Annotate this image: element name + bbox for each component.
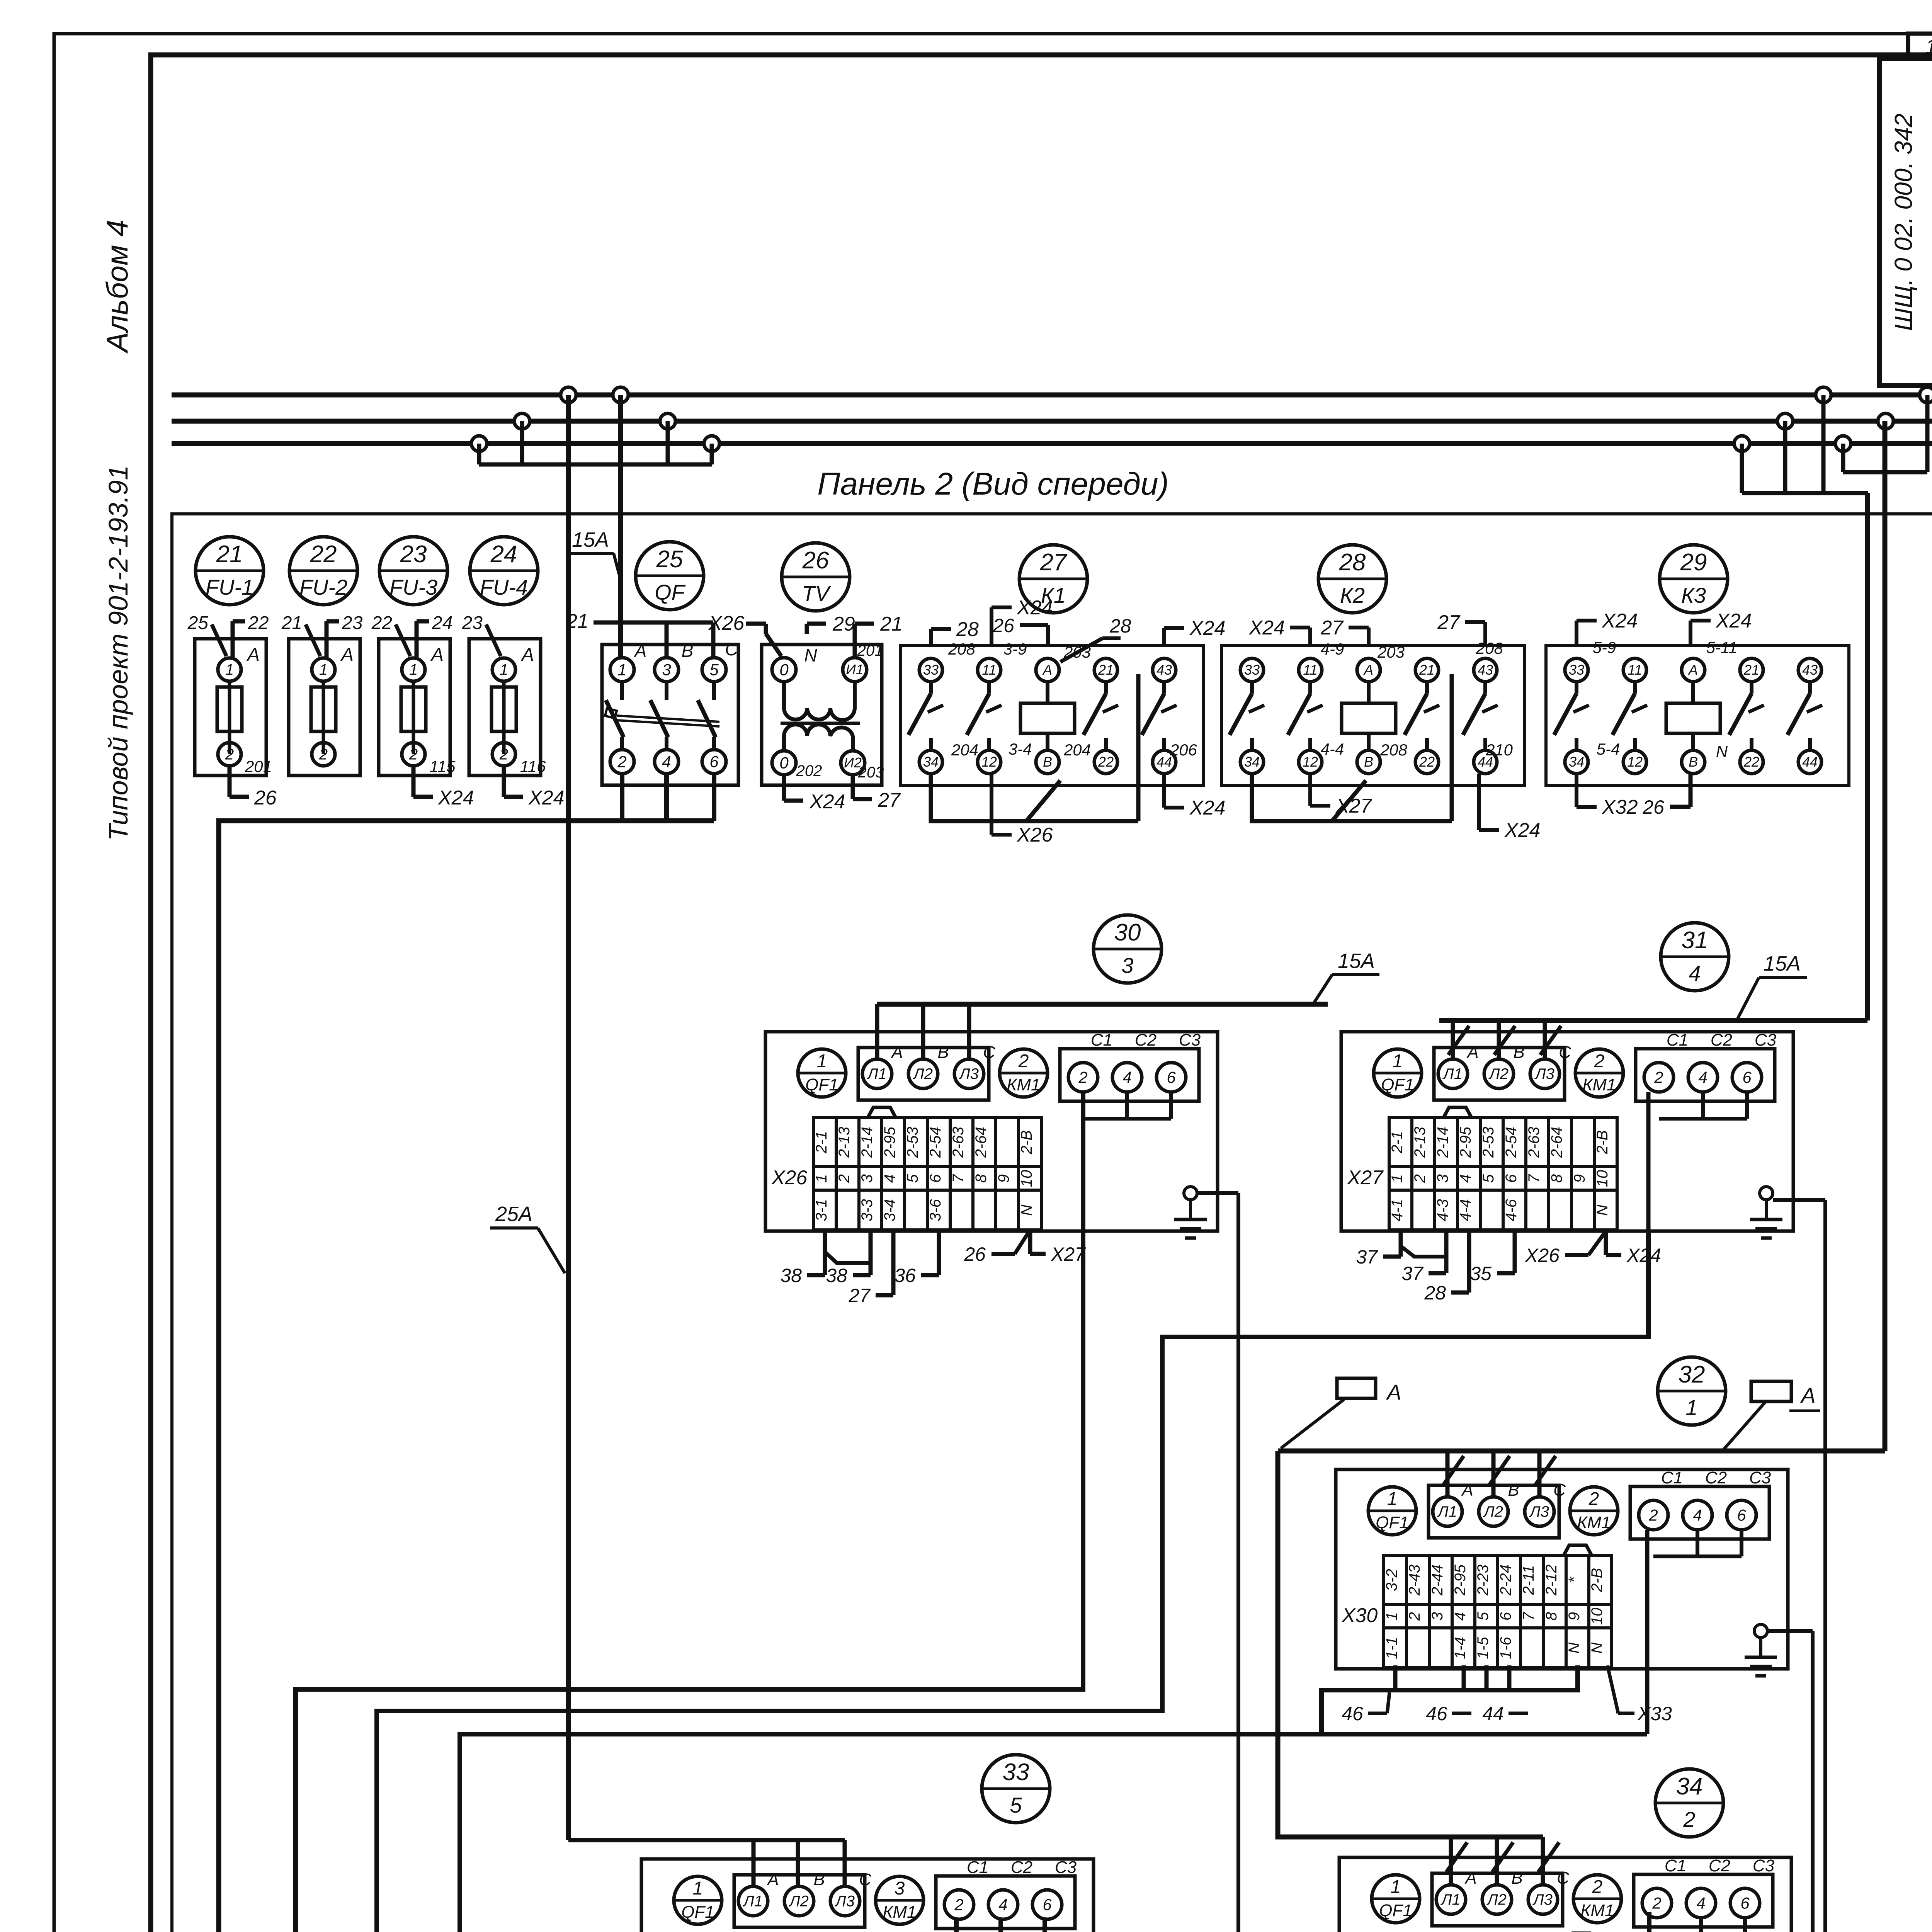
starter block 30 ground [1184,1187,1197,1200]
document number box (rotated) ШЩ.002.000.342 [1879,59,1932,386]
svg-text:2-54: 2-54 [1503,1127,1520,1158]
svg-text:Л3: Л3 [1529,1503,1549,1520]
svg-text:C2: C2 [1135,1031,1156,1049]
svg-text:12: 12 [981,754,997,770]
relay К3 id circle [1660,545,1728,613]
svg-text:A: A [1461,1481,1473,1500]
svg-text:4-6: 4-6 [1503,1199,1520,1221]
page number box 13 [1908,34,1932,59]
svg-text:C3: C3 [1055,1858,1077,1877]
svg-text:26: 26 [254,787,277,809]
svg-text:5: 5 [1475,1612,1492,1621]
starter block 34 breaker QF1 [1372,1875,1420,1923]
svg-text:X24: X24 [438,787,474,809]
svg-text:2-23: 2-23 [1475,1565,1492,1596]
block 30 table leads [823,1230,827,1275]
svg-text:N: N [1018,1204,1035,1216]
fuse FU-3 output stub [412,766,416,797]
svg-text:2-44: 2-44 [1429,1565,1446,1596]
fuse FU-1 id circle [196,537,264,605]
svg-text:6: 6 [927,1174,944,1183]
breaker QF terminals 2 4 6 [610,750,634,774]
svg-text:X26: X26 [1017,824,1053,846]
svg-text:15A: 15A [1764,952,1801,975]
svg-text:4-4: 4-4 [1321,740,1344,758]
svg-text:C: C [725,639,738,659]
relay К2 bottom terminals [1240,750,1264,774]
svg-text:Л2: Л2 [788,1893,809,1910]
svg-text:Л1: Л1 [1442,1066,1463,1083]
svg-text:2-14: 2-14 [859,1127,876,1158]
svg-text:X26: X26 [1525,1245,1560,1266]
starter block 32 id circle [1658,1357,1726,1425]
svg-text:A: A [766,1870,779,1889]
svg-text:27: 27 [1320,617,1344,639]
starter block 31 id circle [1661,923,1729,991]
svg-text:X24: X24 [1504,819,1541,842]
fuse FU-2 feed stubs [325,621,329,657]
wire block 34 output to connector 2-н1 [932,1912,1649,1932]
svg-text:28: 28 [1424,1282,1446,1304]
svg-text:37: 37 [1356,1246,1378,1268]
svg-text:7: 7 [950,1173,967,1183]
starter block 33 contactor KM1 [876,1876,923,1924]
svg-text:21: 21 [880,613,903,635]
starter block 32 table connector bump [1564,1545,1592,1555]
svg-text:X24: X24 [1248,617,1285,639]
starter block 30 outline [765,1032,1218,1231]
svg-text:2: 2 [1078,1068,1087,1086]
svg-text:3-3: 3-3 [859,1199,876,1221]
svg-text:1: 1 [813,1174,830,1183]
svg-text:33: 33 [1244,662,1260,678]
svg-text:QF1: QF1 [1381,1075,1414,1094]
svg-text:Л2: Л2 [1483,1503,1503,1520]
bus line L1 [172,393,1932,398]
svg-text:X26: X26 [708,612,745,634]
starter block 32 C-phase jumper [1696,1530,1699,1556]
svg-text:Л1: Л1 [866,1066,887,1083]
svg-text:5: 5 [1480,1174,1497,1183]
svg-text:43: 43 [1478,662,1493,678]
svg-text:2-43: 2-43 [1406,1565,1423,1596]
wire feeder to blocks 32 and 34 [1278,1449,1885,1454]
svg-text:206: 206 [1170,741,1197,759]
svg-text:4: 4 [998,1895,1007,1913]
svg-text:A: A [1363,662,1373,678]
fuse FU-1 output stub [228,766,232,797]
svg-text:27: 27 [848,1285,871,1306]
svg-text:34: 34 [1569,754,1584,770]
fuse FU-2 element [322,681,325,754]
relay К1 input stubs [929,629,933,646]
svg-text:3: 3 [1429,1612,1446,1621]
svg-text:208: 208 [1476,639,1503,657]
svg-text:22: 22 [1419,754,1435,770]
svg-text:201: 201 [245,757,272,776]
svg-text:X30: X30 [1342,1604,1378,1627]
svg-text:208: 208 [1380,741,1408,759]
svg-text:C2: C2 [1711,1031,1732,1049]
starter block 30 terminal table X26 [813,1117,1041,1230]
svg-text:B: B [1508,1481,1519,1500]
svg-text:44: 44 [1802,754,1818,770]
svg-text:6: 6 [709,752,719,770]
block 30 table lead 26 / X27 [1028,1230,1032,1254]
fuse FU-4 terminal 1 [492,658,515,681]
svg-text:4-3: 4-3 [1434,1199,1451,1221]
svg-text:Типовой проект 901-2-193.91: Типовой проект 901-2-193.91 [103,465,133,841]
svg-text:2-64: 2-64 [1548,1127,1565,1158]
svg-text:1: 1 [617,660,626,679]
svg-text:3: 3 [1121,953,1133,978]
svg-text:X33: X33 [1637,1703,1672,1725]
fuse FU-1 box [195,639,266,776]
svg-text:X24: X24 [809,791,845,813]
svg-text:3: 3 [1434,1174,1451,1183]
svg-text:B: B [682,641,694,661]
fuse FU-2 terminal 1 [312,658,335,681]
svg-text:Л2: Л2 [1486,1891,1507,1908]
transformer TV terminals [772,658,796,682]
starter block 30 output terminals box [1060,1049,1199,1101]
svg-text:24: 24 [490,541,517,568]
svg-text:2-B: 2-B [1588,1568,1605,1592]
svg-text:23: 23 [400,541,427,568]
svg-text:21: 21 [1419,662,1435,678]
fuse FU-3 terminal 1 [402,658,425,681]
svg-text:22: 22 [310,541,337,568]
svg-text:X24: X24 [1626,1245,1661,1266]
svg-text:X24: X24 [1189,617,1226,639]
svg-text:1: 1 [817,1051,827,1071]
starter block 33 output terminals box [936,1876,1075,1929]
svg-text:5: 5 [1010,1793,1022,1817]
starter block 33 breaker QF1 [674,1876,722,1924]
starter block 33 input terminals box [734,1875,865,1927]
svg-text:2: 2 [1018,1051,1029,1071]
svg-text:Л1: Л1 [742,1893,763,1910]
svg-text:6: 6 [1742,1068,1752,1086]
svg-text:27: 27 [1437,611,1461,634]
starter block 32 outline [1336,1469,1788,1669]
svg-text:6: 6 [1740,1894,1750,1912]
svg-text:C2: C2 [1705,1468,1727,1487]
svg-text:2: 2 [836,1174,853,1183]
starter block 31 contactor KM1 [1575,1049,1623,1097]
fuse FU-2 id circle [289,537,357,605]
svg-text:1: 1 [1389,1174,1406,1183]
svg-text:3-2: 3-2 [1383,1569,1400,1591]
starter block 34 contactor KM1 [1573,1875,1621,1923]
svg-text:9: 9 [995,1174,1012,1183]
svg-text:10: 10 [1588,1608,1605,1625]
svg-text:2-13: 2-13 [836,1127,853,1158]
starter block 32 ground [1754,1624,1767,1638]
svg-text:1-1: 1-1 [1383,1637,1400,1659]
fuse FU-3 id circle [379,537,447,605]
svg-text:C: C [1553,1481,1566,1500]
svg-text:26: 26 [992,615,1014,636]
svg-text:2-14: 2-14 [1434,1127,1451,1158]
svg-text:B: B [1689,754,1698,770]
svg-text:A: A [430,645,444,665]
fuse FU-3 box [379,639,450,776]
svg-text:Альбом 4: Альбом 4 [100,220,134,354]
panel rectangle [172,514,1932,1932]
svg-text:A: A [520,645,534,665]
svg-text:КМ1: КМ1 [1007,1075,1040,1094]
bus junctions left [561,387,576,403]
svg-text:0: 0 [779,660,789,679]
svg-text:4-4: 4-4 [1457,1199,1474,1221]
svg-text:QF1: QF1 [1376,1513,1409,1532]
svg-text:21: 21 [566,610,588,633]
starter block 30 breaker QF1 [798,1049,846,1097]
svg-text:25: 25 [187,613,209,633]
svg-text:43: 43 [1802,662,1818,678]
fuse FU-3 feed stubs [415,621,419,657]
svg-text:КМ1: КМ1 [1577,1513,1611,1532]
svg-text:2: 2 [1654,1068,1663,1086]
svg-text:C1: C1 [967,1858,988,1877]
svg-text:C1: C1 [1665,1856,1686,1875]
svg-text:12: 12 [1303,754,1318,770]
breaker QF contacts [620,682,624,700]
svg-text:2: 2 [617,752,626,770]
svg-text:2-95: 2-95 [881,1126,898,1158]
wire block 30 output to connector 3-Н1 [296,1092,1083,1932]
svg-text:25A: 25A [495,1202,532,1226]
relay К3 output stubs [1575,774,1578,807]
svg-text:A: A [340,645,354,665]
transformer TV id circle [782,543,850,611]
svg-text:A: A [1688,662,1698,678]
svg-text:C: C [1559,1043,1571,1062]
svg-text:38: 38 [780,1265,802,1286]
starter block 30 C-phase jumper [1125,1092,1129,1119]
wire block 31 output to connector 4-Н1 [1646,1092,1651,1231]
svg-text:C2: C2 [1011,1858,1032,1877]
fuse FU-4 id circle [470,537,538,605]
svg-text:4: 4 [1452,1612,1469,1621]
svg-text:C1: C1 [1091,1031,1112,1049]
svg-text:X27: X27 [1347,1167,1384,1189]
svg-text:КМ1: КМ1 [1582,1075,1616,1094]
bus junctions right [1816,387,1831,403]
ammeter box A right of block 32 [1751,1381,1791,1401]
svg-text:33: 33 [1003,1759,1029,1786]
relay К1 contacts [929,682,933,694]
wire bus taps right [1841,444,1845,472]
starter block 30 contactor KM1 [1000,1049,1048,1097]
wire feeder to block 31 (15A) [1439,1018,1867,1023]
svg-text:1: 1 [1383,1612,1400,1621]
svg-text:И2: И2 [844,755,862,770]
svg-text:2-11: 2-11 [1520,1565,1537,1595]
svg-text:2: 2 [1648,1506,1658,1524]
breaker QF terminals 1 3 5 [610,658,634,682]
relay К3 contacts [1575,682,1578,694]
breaker QF id circle [636,542,704,610]
svg-text:2-63: 2-63 [1526,1127,1543,1158]
svg-text:X32: X32 [1602,796,1638,818]
starter block 30 input terminals box [858,1048,989,1100]
starter block 34 outline [1339,1857,1791,1932]
svg-text:QF1: QF1 [1379,1901,1412,1920]
relay К2 contacts [1250,682,1254,694]
svg-text:2-53: 2-53 [904,1127,921,1158]
wire feeder drops to block 34 [1449,1837,1453,1886]
fuse FU-1 terminal 2 [218,743,241,766]
wire PE block 32 to N trunk [1767,1629,1813,1633]
svg-text:5-4: 5-4 [1597,740,1620,758]
fuse FU-1 terminal 1 [218,658,241,681]
svg-text:FU-1: FU-1 [206,575,253,599]
svg-text:QF1: QF1 [681,1903,714,1922]
starter block 32 contactor KM1 [1570,1487,1618,1535]
transformer TV output stubs [782,775,786,801]
svg-text:C2: C2 [1709,1856,1730,1875]
svg-text:B: B [1043,754,1052,770]
relay К1 output stubs [931,774,1138,821]
svg-text:4: 4 [662,752,671,770]
svg-text:6: 6 [1167,1068,1176,1086]
breaker QF box [602,645,738,785]
svg-text:1: 1 [319,662,328,679]
wire feeder to block 30 (15A) [877,1002,1328,1007]
svg-text:4: 4 [1689,961,1701,985]
svg-text:КМ1: КМ1 [883,1903,916,1922]
svg-text:208: 208 [948,640,976,658]
svg-text:28: 28 [1109,615,1131,637]
svg-text:8: 8 [973,1174,990,1183]
svg-text:Панель 2 (Вид спереди): Панель 2 (Вид спереди) [817,466,1169,502]
starter block 33 outline [641,1859,1094,1932]
relay К2 box [1221,646,1524,786]
svg-text:C: C [859,1870,872,1889]
svg-text:8: 8 [1548,1174,1565,1183]
svg-text:46: 46 [1426,1703,1447,1725]
wire block 32 output to connector 1-Н1 [1645,1530,1650,1734]
svg-text:КМ1: КМ1 [1580,1901,1614,1920]
svg-text:C3: C3 [1749,1468,1771,1487]
svg-text:A: A [1042,662,1052,678]
wire block 32 table cable to 1-Н1 trunk [1321,1665,1578,1734]
svg-text:A: A [246,645,260,665]
svg-text:30: 30 [1114,919,1141,946]
svg-text:2-64: 2-64 [973,1127,990,1158]
svg-text:204: 204 [1063,741,1091,759]
starter block 32 terminal table X30 [1384,1555,1612,1668]
svg-text:34: 34 [1676,1773,1703,1800]
svg-text:C3: C3 [1179,1031,1201,1049]
svg-text:33: 33 [923,662,939,678]
svg-text:203: 203 [1377,643,1405,661]
svg-text:2: 2 [1588,1489,1599,1509]
svg-text:2: 2 [1594,1051,1605,1071]
starter block 34 C-phase jumper [1699,1918,1703,1932]
svg-text:3-4: 3-4 [1009,740,1032,758]
svg-text:4-1: 4-1 [1389,1199,1406,1221]
svg-text:24: 24 [432,613,452,633]
svg-text:2-24: 2-24 [1497,1565,1514,1596]
wire right feeder A to block 31 [1865,493,1870,1020]
svg-text:2: 2 [1592,1877,1603,1897]
relay К3 top terminals [1565,658,1588,682]
wire QF output cable to НЗ connector [620,774,624,821]
relay К1 box [900,646,1203,786]
transformer TV primary winding [784,682,855,720]
svg-text:10: 10 [1018,1170,1035,1187]
svg-text:116: 116 [520,757,546,776]
svg-text:26: 26 [964,1243,986,1265]
svg-text:34: 34 [1244,754,1260,770]
svg-text:22: 22 [1098,754,1114,770]
svg-text:6: 6 [1503,1174,1520,1183]
svg-text:4: 4 [1693,1506,1702,1524]
svg-text:11: 11 [1628,662,1642,678]
svg-text:N: N [1566,1642,1583,1653]
svg-text:44: 44 [1482,1703,1504,1725]
wire 15A feeder drop to QF [618,395,623,657]
starter block 33 id circle [982,1755,1050,1823]
ammeter box A left of block 32 [1337,1378,1376,1398]
svg-text:8: 8 [1543,1612,1560,1621]
svg-text:QF1: QF1 [805,1075,838,1094]
svg-text:1-5: 1-5 [1475,1636,1492,1659]
svg-text:*: * [1566,1577,1583,1583]
svg-text:28: 28 [1339,549,1366,576]
svg-text:X27: X27 [1335,795,1372,817]
svg-text:2: 2 [409,746,418,763]
svg-text:1: 1 [1387,1489,1398,1509]
svg-text:Л2: Л2 [1488,1066,1509,1083]
svg-text:202: 202 [796,762,822,779]
svg-text:1: 1 [409,662,418,679]
svg-text:К2: К2 [1340,583,1365,607]
block 31 table lead X26 / X24 [1604,1231,1608,1255]
fuse FU-4 output stub [502,766,506,797]
svg-text:1: 1 [1685,1395,1697,1420]
transformer TV box [762,645,882,785]
svg-text:3: 3 [895,1878,905,1899]
svg-text:46: 46 [1342,1703,1363,1725]
svg-text:4: 4 [1698,1068,1707,1086]
svg-text:23: 23 [462,613,483,633]
svg-text:3-9: 3-9 [1003,640,1027,658]
svg-text:3-1: 3-1 [813,1199,830,1221]
wire PE block 31 to N trunk [1773,1198,1825,1202]
svg-text:N: N [1594,1204,1611,1216]
svg-text:2: 2 [1412,1174,1429,1183]
svg-text:X27: X27 [1051,1243,1086,1265]
svg-text:37: 37 [1401,1263,1424,1284]
svg-text:N: N [804,645,817,665]
starter block 31 breaker QF1 [1374,1049,1422,1097]
fuse FU-3 terminal 2 [402,743,425,766]
starter block 31 input terminals box [1434,1048,1565,1100]
svg-text:31: 31 [1682,927,1708,954]
svg-text:N: N [1716,742,1728,760]
svg-text:C: C [983,1043,996,1062]
svg-text:Л2: Л2 [912,1066,933,1083]
svg-text:A: A [1800,1383,1815,1407]
svg-text:34: 34 [923,754,939,770]
svg-text:43: 43 [1156,662,1172,678]
starter block 32 breaker QF1 [1368,1487,1416,1535]
svg-text:1-4: 1-4 [1452,1637,1469,1659]
